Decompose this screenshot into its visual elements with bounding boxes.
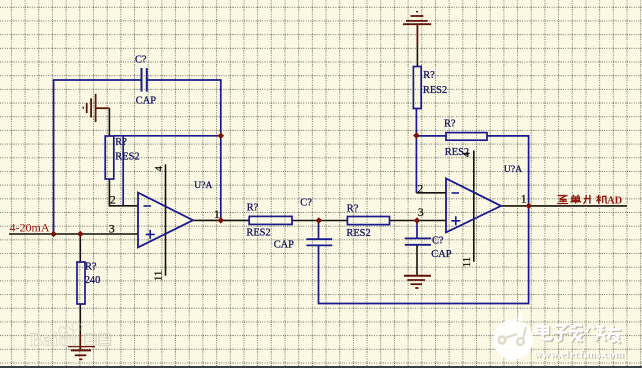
svg-text:RES2: RES2 (246, 227, 270, 238)
svg-text:U?A: U?A (194, 180, 212, 191)
svg-text:RES2: RES2 (346, 228, 370, 239)
svg-text:4: 4 (153, 166, 165, 172)
svg-text:240: 240 (85, 275, 101, 286)
svg-text:U?A: U?A (504, 164, 522, 175)
svg-text:R?: R? (85, 261, 97, 272)
svg-text:1: 1 (521, 191, 527, 205)
svg-text:CAP: CAP (136, 96, 156, 107)
svg-text:AD: AD (607, 196, 623, 207)
svg-text:2: 2 (417, 181, 423, 195)
svg-text:C?: C? (432, 235, 444, 246)
svg-text:www.elecfans.com: www.elecfans.com (534, 348, 624, 360)
svg-text:C?: C? (300, 198, 312, 209)
svg-text:2: 2 (110, 192, 116, 206)
svg-text:CAP: CAP (274, 240, 294, 251)
svg-text:RES2: RES2 (423, 85, 447, 96)
svg-text:11: 11 (461, 257, 473, 267)
svg-text:R?: R? (423, 70, 435, 81)
svg-text:4: 4 (461, 151, 473, 157)
svg-text:CAP: CAP (431, 249, 451, 260)
svg-text:11: 11 (153, 271, 165, 281)
svg-text:R?: R? (247, 202, 259, 213)
svg-text:3: 3 (418, 205, 424, 219)
svg-text:RES2: RES2 (115, 151, 139, 162)
svg-text:C?: C? (135, 54, 147, 65)
svg-text:3: 3 (109, 221, 115, 235)
svg-text:R?: R? (347, 204, 359, 215)
svg-text:1: 1 (214, 207, 220, 221)
svg-text:R?: R? (115, 137, 127, 148)
svg-text:R?: R? (444, 119, 456, 130)
svg-text:4-20mA: 4-20mA (10, 220, 50, 234)
